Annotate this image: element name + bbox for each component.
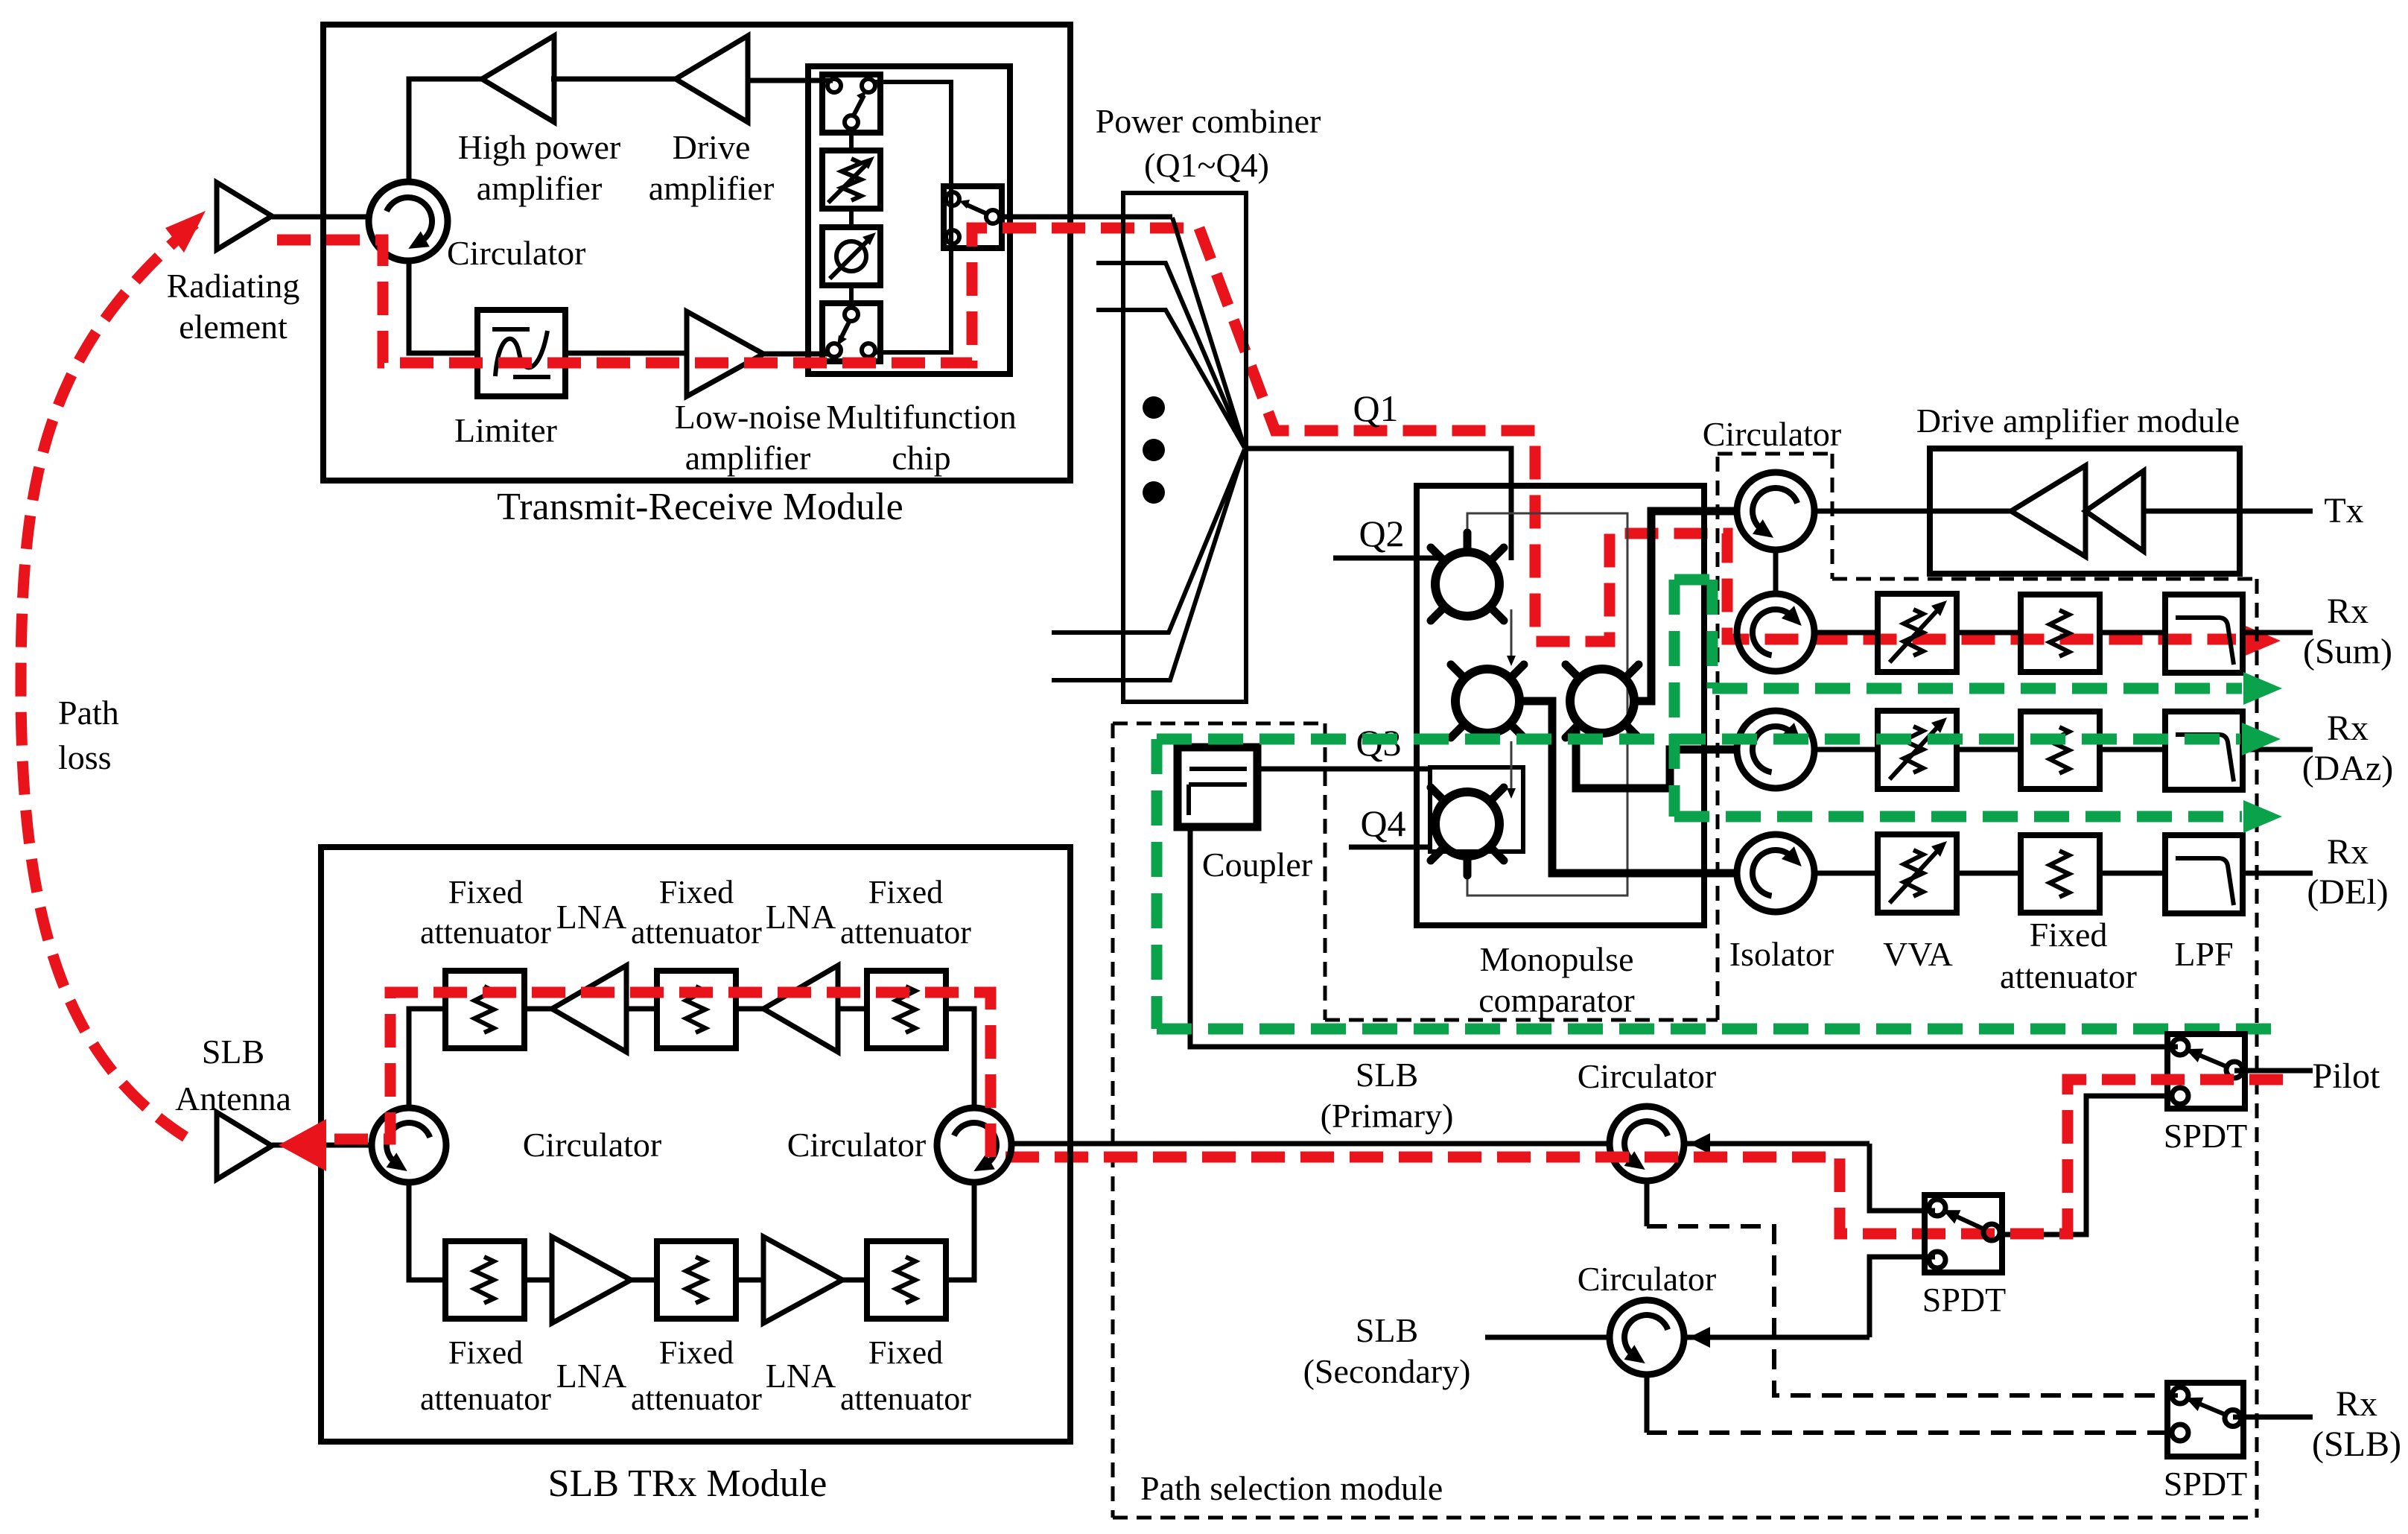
green arrow to Rx DAz	[2242, 723, 2281, 755]
svg-text:SPDT: SPDT	[1922, 1281, 2006, 1319]
phase shifter (chip)	[822, 227, 880, 285]
wire A2-LNA2	[736, 1007, 763, 1012]
combiner fan line 1	[1172, 218, 1245, 448]
VVA (DEl row)	[1878, 834, 1957, 913]
wire A4-LNA3	[524, 1278, 552, 1283]
coupler coupled line	[1189, 782, 1247, 787]
wire Rx Sum row	[1814, 630, 1878, 636]
green path: bottom run	[1157, 1024, 2279, 1035]
wire SLB secondary stub	[1485, 1335, 1610, 1340]
isolator row3 (DAz)	[1737, 711, 1814, 788]
svg-text:(Sum): (Sum)	[2303, 632, 2392, 671]
svg-text:Antenna: Antenna	[175, 1080, 291, 1118]
svg-text:Path selection module: Path selection module	[1140, 1469, 1443, 1507]
svg-text:Path: Path	[58, 694, 119, 732]
svg-text:Fixed: Fixed	[448, 874, 523, 910]
fixed attenuator A3 (SLB top)	[867, 971, 946, 1048]
module boundary: isolator column left	[1716, 454, 1720, 1020]
circulator (SLB right)	[937, 1108, 1011, 1182]
svg-text:Fixed: Fixed	[868, 1334, 943, 1371]
wire antenna to circulator	[272, 215, 369, 220]
circulator (SLB left)	[372, 1108, 446, 1182]
svg-text:attenuator: attenuator	[631, 914, 762, 951]
wire limiter to LNA	[565, 351, 687, 356]
svg-text:attenuator: attenuator	[840, 914, 971, 951]
wire drive amp to HPA	[551, 77, 676, 82]
svg-text:Drive: Drive	[673, 128, 751, 166]
arrow into secondary circulator	[1684, 1335, 1869, 1340]
svg-text:Tx: Tx	[2324, 491, 2363, 530]
svg-text:Fixed: Fixed	[448, 1334, 523, 1371]
svg-text:Q1: Q1	[1353, 387, 1398, 429]
hybrid coupler H2	[1455, 669, 1519, 733]
svg-text:(Primary): (Primary)	[1321, 1097, 1454, 1135]
wire circulator to high power amplifier	[409, 79, 482, 183]
red path: pilot injection	[991, 1080, 2283, 1234]
green path: under Sum run	[1712, 683, 2242, 694]
svg-text:Fixed: Fixed	[659, 1334, 734, 1371]
svg-text:LNA: LNA	[556, 1357, 627, 1395]
svg-text:Drive amplifier module: Drive amplifier module	[1916, 402, 2240, 440]
svg-text:Circulator: Circulator	[1578, 1260, 1717, 1298]
svg-text:Fixed: Fixed	[659, 874, 734, 910]
drive amplifier module box	[1930, 449, 2240, 574]
green arrow above Rx DEl	[2243, 800, 2282, 833]
svg-text:Rx: Rx	[2336, 1384, 2377, 1424]
switch SPDT1 (pilot select)	[2167, 1034, 2245, 1109]
module boundary: circulator box top	[1718, 452, 1832, 456]
op-amp: high power amplifier	[482, 36, 554, 122]
green path: down to Sum row	[1707, 580, 1718, 688]
red path: SLB receive route	[328, 992, 991, 1157]
hybrid coupler H4	[1430, 767, 1523, 852]
svg-text:attenuator: attenuator	[420, 914, 551, 951]
wire chip output to power combiner	[999, 215, 1172, 220]
wire LNA4-A6	[842, 1278, 867, 1283]
svg-text:LPF: LPF	[2174, 935, 2233, 973]
module boundary: SLB primary box top	[1113, 722, 1325, 726]
wire DAz output to isolator row3	[1576, 726, 1737, 788]
wire Q4 to comparator	[1349, 845, 1432, 850]
fixed attenuator (DEl row)	[2021, 835, 2100, 913]
wire secondary circulator to SPDT2 bottom	[1869, 1257, 1935, 1337]
op-amp LNA1 (SLB top)	[552, 966, 626, 1052]
wire DEl output to isolator row4	[1522, 701, 1737, 873]
combiner input line 3	[1096, 310, 1245, 448]
op-amp: low-noise amplifier	[687, 311, 763, 396]
isolator row2 (Sum)	[1737, 594, 1814, 671]
svg-text:element: element	[179, 308, 288, 346]
module boundary: comparator bottom	[1325, 1018, 1718, 1022]
svg-text:Monopulse: Monopulse	[1480, 940, 1634, 978]
svg-text:Isolator: Isolator	[1729, 935, 1834, 973]
svg-text:Fixed: Fixed	[868, 874, 943, 910]
svg-text:SLB: SLB	[202, 1033, 264, 1071]
combiner input line 4	[1052, 449, 1245, 633]
wire Rx DEl row	[1814, 871, 1878, 876]
svg-text:(Q1~Q4): (Q1~Q4)	[1144, 146, 1269, 184]
LPF (DEl row)	[2165, 835, 2243, 913]
svg-text:Q2: Q2	[1359, 513, 1404, 554]
wire A1-LNA1	[524, 1007, 552, 1012]
hybrid coupler H1	[1435, 552, 1499, 616]
green path: to DEl arrow	[1674, 811, 2242, 823]
wire Rx SLB	[2233, 1415, 2313, 1420]
svg-text:SLB: SLB	[1356, 1056, 1418, 1094]
coupler through line	[1189, 767, 1247, 771]
op-amp LNA4 (SLB bottom)	[763, 1237, 842, 1323]
svg-text:Circulator: Circulator	[1578, 1057, 1717, 1095]
wire SLB antenna to circulator	[272, 1143, 372, 1148]
svg-text:attenuator: attenuator	[631, 1381, 762, 1417]
svg-text:Rx: Rx	[2327, 832, 2369, 872]
arrow into primary circulator	[1684, 1141, 1869, 1147]
LPF (Sum row)	[2165, 595, 2243, 673]
wire chip bypass loop	[875, 82, 951, 352]
antenna: SLB antenna	[217, 1112, 272, 1179]
monopulse comparator box	[1417, 486, 1704, 925]
svg-text:comparator: comparator	[1478, 981, 1634, 1019]
wire Q2 to comparator	[1333, 556, 1445, 561]
fixed attenuator (DAz row)	[2021, 711, 2100, 789]
svg-text:Fixed: Fixed	[2030, 916, 2108, 954]
wire Tx row	[1814, 509, 2011, 514]
wire circulator to limiter	[409, 261, 477, 353]
svg-text:Circulator: Circulator	[447, 234, 586, 272]
svg-text:Circulator: Circulator	[1703, 415, 1842, 453]
wire SLB left circulator down	[409, 1182, 445, 1280]
svg-text:amplifier: amplifier	[685, 439, 811, 477]
module boundary: right edge	[2255, 579, 2259, 1518]
svg-text:Circulator: Circulator	[787, 1126, 927, 1164]
svg-text:LNA: LNA	[766, 898, 836, 936]
svg-text:Limiter: Limiter	[454, 411, 557, 449]
svg-text:Coupler: Coupler	[1202, 846, 1312, 884]
wire Q3 coupler to comparator	[1257, 767, 1432, 772]
svg-text:Transmit-Receive Module: Transmit-Receive Module	[497, 486, 903, 528]
wire row1-row2 link	[1773, 550, 1779, 595]
red path: TR receive route	[277, 228, 1199, 363]
module boundary: drive amplifier module bottom	[1832, 577, 2257, 581]
wire comparator inner loop (thin)	[1467, 513, 1627, 896]
wire LNA2-A3	[838, 1007, 867, 1012]
red arrow to Rx Sum	[2242, 624, 2281, 657]
coupler box	[1178, 747, 1257, 827]
wire Rx DAz row	[1814, 747, 1878, 752]
svg-text:VVA: VVA	[1883, 935, 1953, 973]
circulator (primary path)	[1610, 1106, 1684, 1181]
wire thin link H1-H2	[1510, 609, 1513, 662]
combiner ellipsis dots	[1143, 396, 1165, 419]
svg-text:LNA: LNA	[556, 898, 627, 936]
green path: Q3 to Rx DAz	[1157, 734, 2240, 745]
fixed attenuator A5 (SLB bottom)	[657, 1241, 736, 1319]
green path: comparator riser	[1669, 580, 1680, 817]
fixed attenuator A4 (SLB bottom)	[445, 1241, 524, 1319]
green arrow under Rx Sum	[2243, 672, 2282, 705]
hybrid coupler H3	[1570, 669, 1634, 733]
wire SLB right circulator down	[944, 1182, 974, 1280]
op-amp: drive amp 2	[2085, 471, 2144, 551]
switch SPDT (chip T/R select)	[944, 186, 1002, 248]
wire LNA3-A5	[631, 1278, 657, 1283]
red path-loss arc	[21, 224, 195, 1138]
svg-text:SPDT: SPDT	[2164, 1465, 2247, 1503]
wire Pilot	[2234, 1068, 2313, 1074]
svg-text:attenuator: attenuator	[840, 1381, 971, 1417]
svg-text:Q4: Q4	[1360, 802, 1405, 844]
wire coupler to SPDT1	[1190, 827, 2178, 1047]
svg-text:(Secondary): (Secondary)	[1303, 1352, 1471, 1390]
wire primary circulator to SPDT2 top	[1869, 1144, 1935, 1211]
fixed attenuator A2 (SLB top)	[657, 971, 736, 1048]
op-amp: drive amp 1	[2011, 466, 2085, 557]
circulator row1 (Tx/Rx)	[1737, 472, 1814, 550]
fixed attenuator A6 (SLB bottom)	[867, 1241, 946, 1319]
svg-text:SLB: SLB	[1356, 1311, 1418, 1349]
wire thin link H2-H4	[1510, 741, 1513, 794]
dashed wire secondary to SPDT3 bottom	[1647, 1430, 2178, 1435]
wire Q1 output to comparator	[1245, 449, 1511, 560]
isolator row4 (DEl)	[1737, 834, 1814, 912]
svg-text:SLB TRx Module: SLB TRx Module	[548, 1462, 827, 1505]
module boundary: SLB primary box right	[1324, 723, 1327, 1020]
svg-text:Pilot: Pilot	[2313, 1056, 2380, 1096]
LPF (DAz row)	[2165, 711, 2243, 790]
wire SLB left circulator up	[409, 1009, 445, 1108]
circulator (secondary path)	[1610, 1300, 1684, 1375]
wire multifunction chip to drive amplifier	[748, 78, 833, 83]
wire LNA to multifunction chip	[763, 352, 830, 357]
svg-text:amplifier: amplifier	[477, 169, 603, 207]
combiner input line 5	[1052, 449, 1245, 680]
variable attenuator (chip)	[822, 150, 880, 209]
svg-text:Rx: Rx	[2327, 592, 2369, 631]
wire primary circulator down	[1645, 1181, 1650, 1226]
wire chip chain vertical	[849, 133, 854, 150]
svg-text:attenuator: attenuator	[420, 1381, 551, 1417]
svg-text:(SLB): (SLB)	[2312, 1424, 2401, 1464]
multifunction chip box	[808, 66, 1010, 374]
red path: through power combiner to Q1	[1199, 228, 2236, 641]
fixed attenuator (Sum row)	[2021, 595, 2100, 672]
green path: top jog	[1674, 574, 1712, 586]
green path: primary riser	[1151, 739, 1163, 1029]
VVA (DAz row)	[1878, 711, 1957, 789]
svg-text:SPDT: SPDT	[2164, 1117, 2247, 1155]
switch SPDT2 (path select)	[1925, 1195, 2002, 1272]
circulator (TR module)	[369, 182, 448, 261]
svg-text:amplifier: amplifier	[649, 169, 775, 207]
wire LNA1-A2	[626, 1007, 657, 1012]
VVA (Sum row)	[1878, 594, 1957, 672]
module box: Transmit-Receive Module	[323, 25, 1070, 481]
svg-text:High power: High power	[458, 128, 620, 166]
svg-text:Low-noise: Low-noise	[675, 398, 822, 436]
fixed attenuator A1 (SLB top)	[445, 971, 524, 1048]
op-amp LNA3 (SLB bottom)	[552, 1237, 631, 1323]
svg-text:loss: loss	[58, 738, 112, 776]
combiner input line 2	[1096, 263, 1245, 448]
limiter	[477, 310, 565, 396]
power combiner box	[1123, 193, 1246, 702]
red arrow to SLB antenna	[279, 1119, 326, 1171]
svg-text:attenuator: attenuator	[2000, 957, 2137, 995]
wire secondary circulator down	[1645, 1375, 1650, 1433]
module box: SLB TRx Module	[321, 847, 1070, 1442]
wire A5-LNA4	[736, 1278, 763, 1283]
wire drive amp module to Tx	[2144, 509, 2313, 514]
op-amp: drive amplifier	[676, 36, 748, 122]
red arrow to radiating element	[165, 211, 206, 253]
svg-text:LNA: LNA	[766, 1357, 836, 1395]
switch SW2 (chip Rx switch)	[822, 303, 880, 361]
module boundary: circulator box right	[1831, 454, 1834, 579]
svg-text:Circulator: Circulator	[523, 1126, 662, 1164]
wire SPDT1 bottom port	[2002, 1096, 2167, 1235]
svg-text:Radiating: Radiating	[167, 267, 300, 305]
switch SPDT3 (Rx SLB select)	[2167, 1383, 2243, 1457]
dashed wire primary to SPDT3 top	[1647, 1226, 2178, 1395]
wire SLB module to primary circulator	[1014, 1141, 1610, 1147]
module boundary: path selection bottom	[1113, 1516, 2257, 1520]
svg-text:(DAz): (DAz)	[2302, 749, 2394, 788]
svg-text:Multifunction: Multifunction	[826, 398, 1017, 436]
wire SLB right circulator up	[944, 1009, 974, 1108]
wire sum output to circulator row1	[1636, 511, 1737, 701]
switch SW1 (chip Tx switch)	[822, 75, 880, 133]
svg-text:chip: chip	[892, 439, 950, 477]
antenna: radiating element	[217, 183, 272, 250]
op-amp LNA2 (SLB top)	[763, 966, 838, 1052]
module boundary: path selection left edge	[1111, 723, 1115, 1518]
svg-text:Power combiner: Power combiner	[1096, 102, 1321, 140]
svg-text:(DEl): (DEl)	[2307, 872, 2388, 912]
svg-text:Rx: Rx	[2327, 709, 2369, 748]
